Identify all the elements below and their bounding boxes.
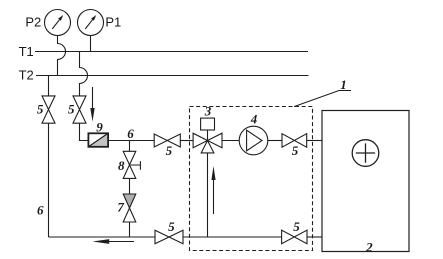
valve 5 (return from boiler) bbox=[282, 230, 307, 244]
wire valve 8 to valve 7 bbox=[129, 178, 131, 194]
svg-text:P2: P2 bbox=[25, 15, 41, 30]
valve 5 (supply to boiler) bbox=[282, 134, 307, 148]
pipe mixing valve to pump bbox=[222, 140, 239, 142]
pipe bottom return middle bbox=[183, 236, 282, 238]
valve 5 (return horizontal) bbox=[155, 230, 183, 244]
boiler 2 bbox=[322, 111, 409, 252]
pump 4 bbox=[239, 126, 268, 155]
valve 7 bbox=[123, 194, 136, 222]
wire return branch from T2 bbox=[48, 76, 50, 96]
flow arrow down bbox=[90, 87, 94, 122]
valve 5 (return branch) bbox=[42, 96, 55, 123]
dashed enclosure 1 bbox=[190, 107, 313, 251]
svg-text:5: 5 bbox=[293, 219, 300, 234]
pipe boiler return bbox=[307, 236, 322, 238]
three-way mixing valve 3 bbox=[193, 118, 222, 153]
filter 9 bbox=[88, 133, 108, 147]
svg-text:P1: P1 bbox=[105, 15, 121, 30]
gauge P1 bbox=[78, 10, 104, 36]
svg-text:9: 9 bbox=[96, 119, 103, 134]
svg-text:T2: T2 bbox=[19, 67, 34, 82]
svg-text:5: 5 bbox=[68, 101, 75, 116]
valve 8 bbox=[123, 151, 140, 178]
svg-text:3: 3 bbox=[204, 104, 212, 119]
wire gauge P1 stem bbox=[90, 36, 92, 52]
svg-text:5: 5 bbox=[166, 143, 173, 158]
svg-text:2: 2 bbox=[365, 240, 373, 255]
valve 5 (supply horizontal) bbox=[154, 134, 180, 147]
wire gauge P2 stem with hop over T1 bbox=[58, 36, 66, 76]
svg-text:7: 7 bbox=[117, 200, 124, 215]
pipe pump to valve bbox=[268, 140, 282, 142]
svg-text:6: 6 bbox=[37, 202, 44, 217]
wire valve 7 to return pipe bbox=[129, 222, 131, 237]
wire riser to mixing valve bbox=[207, 153, 209, 237]
pipe filter to valve bbox=[108, 140, 154, 142]
svg-text:T1: T1 bbox=[19, 44, 34, 59]
wire left return riser bbox=[48, 123, 50, 237]
boiler burner symbol bbox=[352, 140, 379, 167]
pipe valve to boiler bbox=[307, 140, 322, 142]
valve 5 (supply branch) bbox=[73, 96, 86, 123]
svg-text:5: 5 bbox=[168, 219, 175, 234]
wire supply branch from T1 with hop over T2 bbox=[80, 52, 88, 96]
wire valve to filter elbow bbox=[80, 123, 89, 140]
flow arrow up bbox=[211, 166, 215, 214]
svg-text:5: 5 bbox=[292, 143, 299, 158]
pipe T1 bbox=[35, 51, 308, 53]
gauge P2 bbox=[45, 10, 71, 36]
flow arrow left bbox=[93, 239, 135, 244]
svg-text:8: 8 bbox=[118, 158, 125, 173]
svg-text:4: 4 bbox=[250, 112, 258, 127]
pipe valve to mixing valve bbox=[180, 140, 193, 142]
svg-text:1: 1 bbox=[340, 77, 347, 92]
wire branch to valve 8 bbox=[129, 141, 131, 152]
svg-text:5: 5 bbox=[37, 101, 44, 116]
pipe bottom return left bbox=[49, 236, 156, 238]
svg-text:6: 6 bbox=[127, 126, 134, 141]
leader line to label 1 bbox=[294, 91, 351, 107]
pipe T2 bbox=[36, 75, 309, 77]
